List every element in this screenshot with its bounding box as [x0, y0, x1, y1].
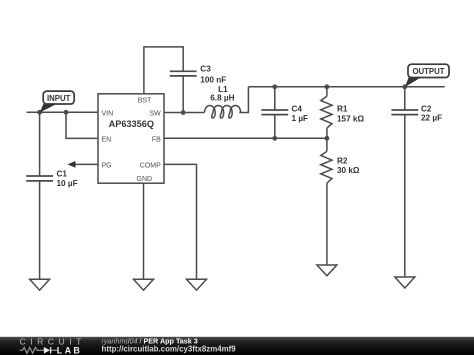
svg-text:FB: FB: [152, 137, 161, 144]
value label L1: [210, 85, 234, 102]
capacitor C1: [26, 176, 53, 181]
wire FB rail: [164, 137, 327, 139]
wire R1 bottom lead: [326, 128, 328, 138]
ground (C1): [30, 279, 50, 290]
IC U1 AP63356Q (buck regulator): [98, 94, 164, 183]
ground (R2): [317, 265, 337, 276]
value label C1: [57, 170, 78, 188]
wire SW to L1: [164, 112, 205, 114]
svg-text:10 µF: 10 µF: [57, 179, 78, 188]
svg-text:http://circuitlab.com/cy3ftx8z: http://circuitlab.com/cy3ftx8zm4mf9: [102, 345, 237, 354]
capacitor C4: [261, 110, 288, 115]
node C4 top junction: [272, 84, 277, 89]
node C4 bottom junction: [272, 136, 277, 141]
svg-text:22 µF: 22 µF: [421, 114, 442, 123]
resistor R1: [321, 96, 332, 128]
svg-text:C4: C4: [292, 104, 303, 113]
wire C1 bottom lead: [39, 181, 41, 279]
value label C4: [292, 104, 309, 122]
node OUTPUT junction: [402, 84, 407, 89]
node INPUT flag: [40, 91, 75, 113]
svg-text:100 nF: 100 nF: [200, 75, 226, 84]
svg-text:VIN: VIN: [102, 111, 114, 118]
wire C4 bottom lead: [274, 115, 276, 139]
wire C2 top lead: [404, 87, 406, 110]
resistor R2: [321, 151, 332, 183]
svg-text:PG: PG: [102, 163, 112, 170]
wire L1 to top rail: [239, 87, 248, 113]
node EN branch junction: [64, 110, 69, 115]
wire BST loop: [144, 47, 183, 94]
wire C1 top lead: [39, 112, 41, 176]
junction dots: [37, 84, 407, 140]
svg-text:C3: C3: [200, 65, 211, 74]
value label R1: [337, 105, 364, 124]
svg-text:R2: R2: [337, 156, 348, 165]
svg-text:BST: BST: [138, 97, 152, 104]
wire GND pin to ground: [143, 183, 145, 279]
svg-text:COMP: COMP: [140, 163, 161, 170]
footer credit text: [102, 336, 237, 353]
node input/C1 junction: [37, 110, 42, 115]
wire R1 top lead: [326, 87, 328, 97]
svg-text:INPUT: INPUT: [47, 94, 71, 103]
ground (COMP): [187, 279, 207, 290]
svg-text:SW: SW: [150, 111, 162, 118]
wire EN branch: [66, 112, 98, 138]
svg-text:R1: R1: [337, 105, 348, 114]
wire R2 bottom lead: [326, 183, 328, 265]
wire input rail: [27, 111, 99, 113]
svg-text:157 kΩ: 157 kΩ: [337, 114, 364, 123]
capacitor C3: [170, 71, 197, 76]
wire COMP to ground: [164, 164, 197, 279]
value label C3: [200, 65, 226, 85]
wire PG stub: [75, 163, 98, 165]
svg-text:C1: C1: [57, 170, 68, 179]
value label C2: [421, 105, 442, 123]
wire C4 top lead: [274, 87, 276, 110]
wire C3 bottom lead: [182, 76, 184, 113]
node FB/R1/R2 junction: [325, 136, 330, 141]
wire R2 top lead: [326, 138, 328, 151]
svg-text:C2: C2: [421, 105, 432, 114]
PG arrow (power-good flag): [68, 161, 76, 168]
value label R2: [337, 156, 360, 175]
ground (C2): [395, 277, 415, 288]
svg-text:LAB: LAB: [57, 346, 82, 355]
svg-text:6.8 µH: 6.8 µH: [210, 93, 234, 102]
svg-text:AP63356Q: AP63356Q: [109, 119, 154, 129]
ground (GND pin): [134, 279, 154, 290]
wire C2 bottom lead: [404, 115, 406, 277]
node R1 top junction: [325, 84, 330, 89]
svg-text:1 µF: 1 µF: [292, 114, 309, 123]
wire top rail: [248, 86, 444, 88]
CircuitLab logo: [20, 336, 86, 355]
svg-text:OUTPUT: OUTPUT: [412, 67, 444, 76]
svg-text:GND: GND: [137, 176, 153, 183]
node OUTPUT flag: [405, 64, 449, 87]
inductor L1: [205, 106, 241, 119]
node SW/C3 junction: [181, 110, 186, 115]
svg-text:30 kΩ: 30 kΩ: [337, 166, 360, 175]
capacitor C2: [391, 110, 418, 115]
svg-text:EN: EN: [102, 137, 112, 144]
